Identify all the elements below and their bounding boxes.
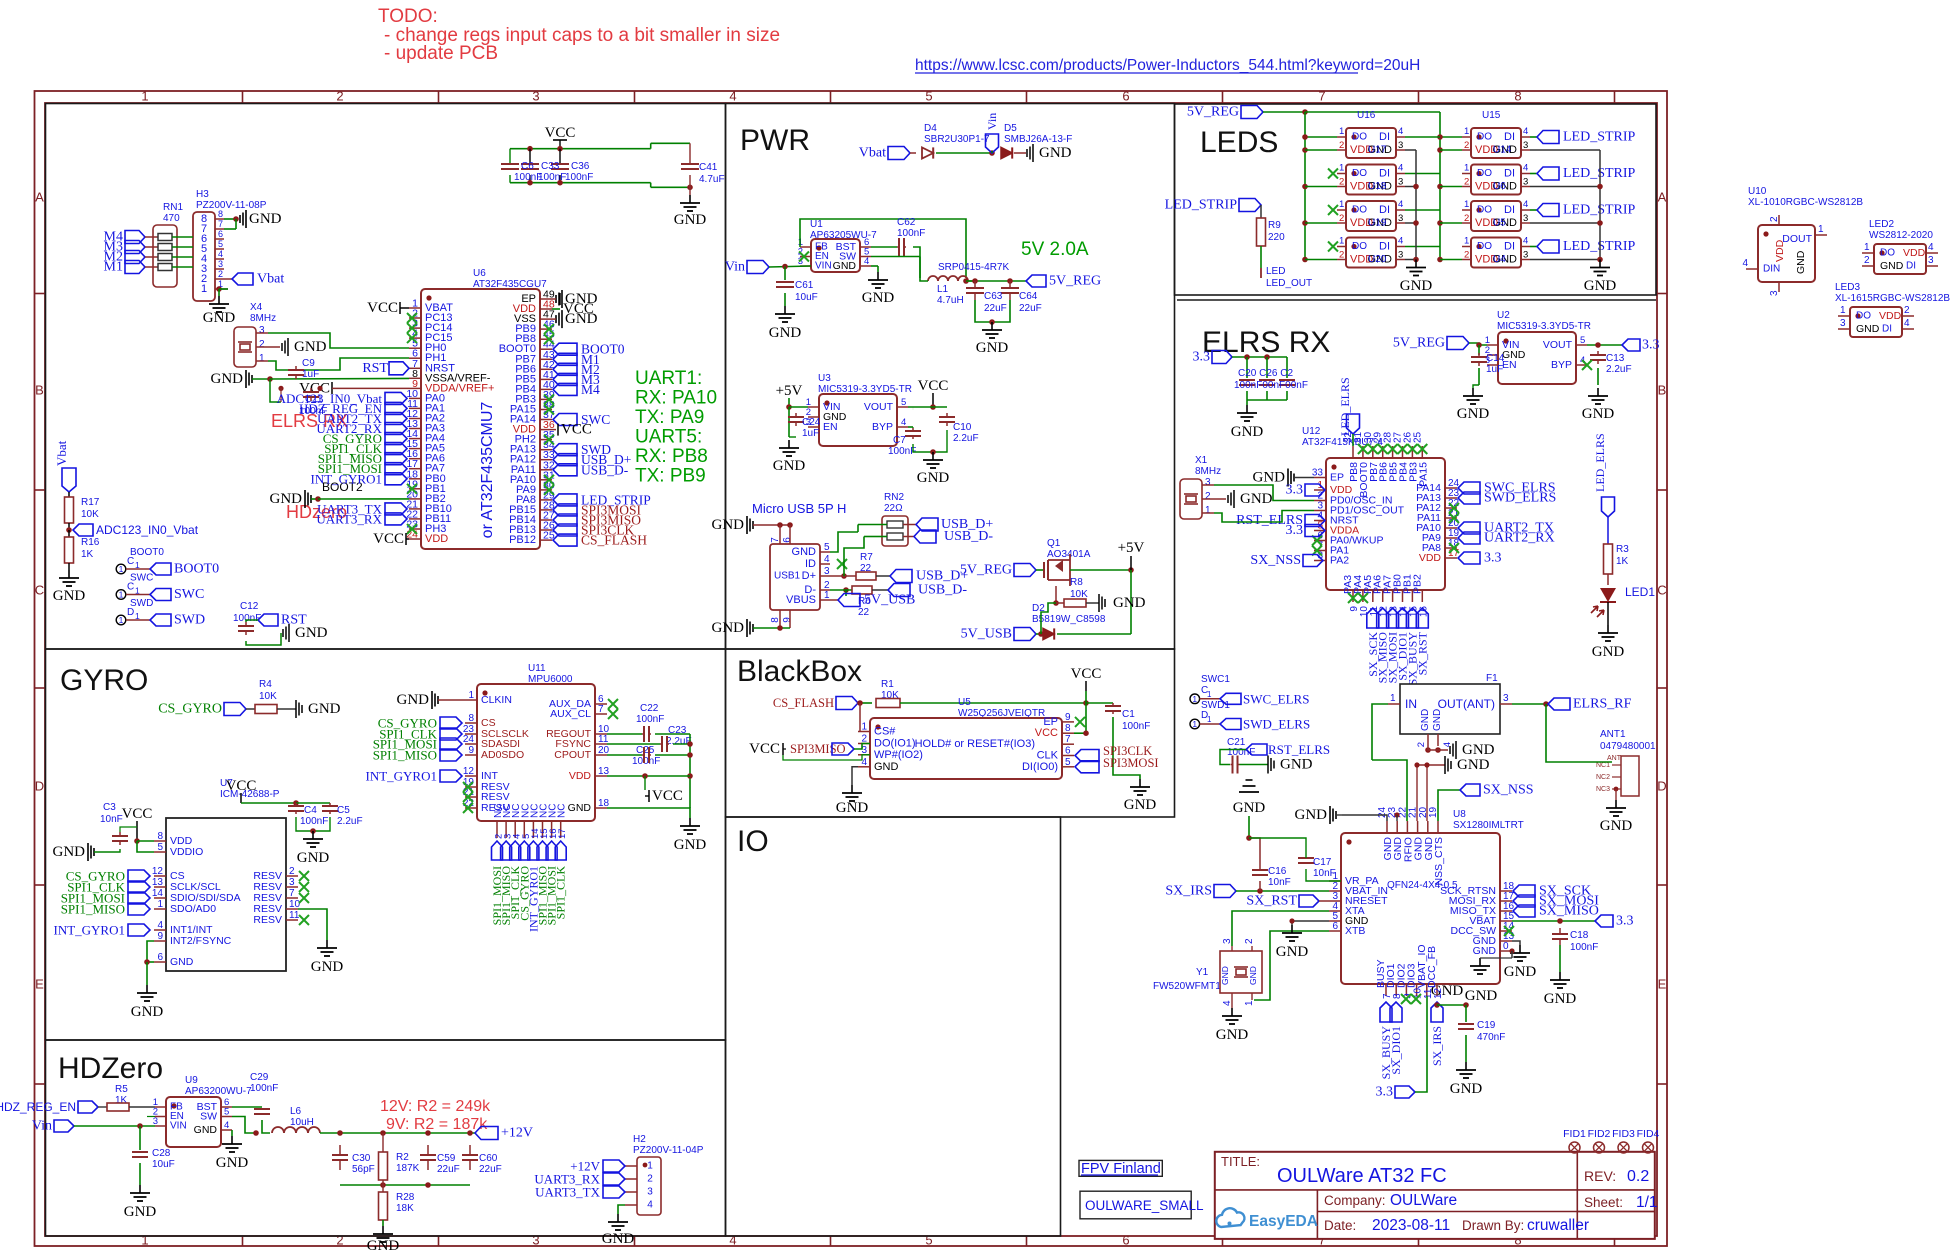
svg-text:+12V: +12V [501,1126,533,1141]
svg-text:GND: GND [1233,800,1266,816]
svg-text:3.3: 3.3 [1286,483,1304,498]
svg-text:FW520WFMT1: FW520WFMT1 [1153,981,1221,992]
svg-text:DI: DI [1379,131,1390,143]
svg-text:8: 8 [1514,89,1521,104]
svg-text:3: 3 [218,259,223,269]
svg-text:D4: D4 [924,123,937,134]
svg-text:1: 1 [1192,694,1197,704]
svg-text:C29: C29 [250,1072,269,1083]
svg-text:SWC1: SWC1 [1201,674,1230,685]
svg-text:R1: R1 [881,679,894,690]
svg-text:GND: GND [833,260,857,272]
svg-text:C59: C59 [437,1153,456,1164]
svg-text:H3: H3 [196,189,209,200]
svg-text:Date:: Date: [1324,1218,1356,1233]
svg-text:CS_FLASH: CS_FLASH [581,533,647,548]
svg-text:1uF: 1uF [302,369,319,380]
svg-text:4: 4 [729,1233,736,1248]
svg-text:VCC: VCC [226,778,257,794]
svg-text:GND: GND [249,211,282,227]
svg-text:U19: U19 [1368,218,1387,229]
svg-text:FID2: FID2 [1588,1128,1611,1140]
svg-text:INT_GYRO1: INT_GYRO1 [54,923,126,938]
svg-text:GND: GND [1280,757,1313,773]
svg-text:GND: GND [773,458,806,474]
svg-text:1: 1 [1339,126,1344,137]
svg-text:RST_ELRS: RST_ELRS [1268,742,1330,757]
svg-text:5: 5 [901,397,906,408]
svg-text:C24: C24 [802,417,821,428]
svg-text:2: 2 [336,89,343,104]
svg-text:3: 3 [1840,318,1846,329]
svg-text:SW: SW [200,1111,217,1123]
svg-text:10K: 10K [259,691,277,702]
svg-text:3: 3 [1398,177,1403,188]
svg-text:U9: U9 [185,1075,198,1086]
svg-text:22uF: 22uF [437,1164,460,1175]
svg-text:4: 4 [1904,318,1910,329]
svg-text:GND: GND [917,470,950,486]
svg-text:C: C [127,556,134,567]
svg-text:EN: EN [823,421,838,433]
svg-text:4: 4 [1928,242,1934,253]
svg-text:PA2: PA2 [1330,555,1349,567]
svg-text:C23: C23 [668,725,687,736]
svg-text:3.3: 3.3 [1193,350,1211,365]
svg-text:4: 4 [218,249,223,259]
svg-text:470nF: 470nF [1477,1032,1505,1043]
svg-text:56pF: 56pF [352,1164,375,1175]
svg-text:C3: C3 [103,802,116,813]
svg-text:GND: GND [1880,260,1904,272]
svg-text:GND: GND [1113,595,1146,611]
svg-text:1: 1 [1205,505,1211,516]
svg-text:SX_NSS: SX_NSS [1250,553,1301,568]
svg-text:VCC: VCC [918,378,949,394]
svg-text:LED_OUT: LED_OUT [1266,278,1312,289]
svg-text:DI: DI [1906,261,1916,272]
svg-text:C63: C63 [984,291,1003,302]
svg-text:3.3: 3.3 [1616,914,1634,929]
svg-text:2: 2 [647,1174,653,1185]
svg-text:12: 12 [152,866,164,877]
svg-text:C36: C36 [571,161,590,172]
svg-text:14: 14 [152,888,164,899]
svg-text:M4: M4 [581,382,600,397]
svg-text:D: D [1657,779,1666,794]
svg-text:C: C [35,583,44,598]
svg-text:GND: GND [194,1124,218,1136]
svg-text:M1: M1 [104,260,123,275]
svg-text:VOUT: VOUT [864,401,894,413]
svg-text:VIN: VIN [815,261,832,272]
svg-text:3: 3 [1503,693,1509,704]
svg-text:100nF: 100nF [233,613,261,624]
svg-text:SX_RST: SX_RST [1415,631,1429,675]
svg-text:GND: GND [1795,250,1807,274]
svg-text:FID3: FID3 [1612,1128,1635,1140]
svg-text:6: 6 [1122,89,1129,104]
svg-text:12: 12 [463,766,475,777]
svg-text:22: 22 [860,563,872,574]
svg-text:R8: R8 [1070,577,1083,588]
svg-text:AUX_CL: AUX_CL [550,708,591,720]
svg-text:4: 4 [224,1120,229,1131]
svg-text:22uF: 22uF [479,1164,502,1175]
svg-text:4: 4 [647,1200,653,1211]
svg-text:VCC: VCC [1071,666,1102,682]
svg-text:GND: GND [602,1231,635,1247]
svg-text:GND: GND [308,701,341,717]
svg-text:5V_REG: 5V_REG [1049,274,1101,289]
svg-text:0: 0 [1503,941,1509,952]
svg-text:DO: DO [1477,205,1492,216]
svg-text:DI: DI [1379,168,1390,180]
svg-text:RX: PA10: RX: PA10 [635,388,717,409]
svg-text:BYP: BYP [1551,359,1572,371]
svg-text:UART3_RX: UART3_RX [316,511,382,526]
svg-text:DI: DI [1504,131,1515,143]
svg-text:2: 2 [336,1233,343,1248]
svg-text:C41: C41 [699,162,718,173]
svg-text:U15: U15 [1482,110,1501,121]
svg-text:GND: GND [1457,757,1490,773]
svg-text:SMBJ26A-13-F: SMBJ26A-13-F [1004,134,1072,145]
svg-text:LED_ELRS: LED_ELRS [1593,433,1607,492]
svg-text:GND: GND [203,310,236,326]
svg-text:X4: X4 [250,302,263,313]
svg-text:1: 1 [824,590,830,601]
svg-text:C30: C30 [352,1153,371,1164]
svg-text:SX1280IMLTRT: SX1280IMLTRT [1453,820,1524,831]
svg-text:10nF: 10nF [1313,868,1336,879]
svg-text:GND: GND [297,850,330,866]
svg-text:6: 6 [1122,1233,1129,1248]
svg-text:U20: U20 [1368,254,1387,265]
svg-text:4: 4 [1398,199,1403,210]
svg-text:3: 3 [824,566,830,577]
svg-text:Vin: Vin [985,113,999,130]
svg-text:GND: GND [769,325,802,341]
svg-text:4: 4 [1442,742,1453,747]
svg-text:E: E [1658,977,1667,992]
svg-text:CPOUT: CPOUT [554,749,591,761]
svg-text:GND: GND [1450,1081,1483,1097]
svg-text:10uF: 10uF [152,1159,175,1170]
svg-text:U4: U4 [1493,254,1506,265]
svg-text:3: 3 [259,325,265,336]
svg-text:GND: GND [311,959,344,975]
svg-text:NC2: NC2 [1596,774,1610,781]
svg-text:4: 4 [824,554,830,565]
svg-text:DO: DO [1352,241,1367,252]
svg-text:B: B [1658,383,1667,398]
svg-text:D+: D+ [802,570,816,582]
svg-text:3: 3 [1523,177,1528,188]
svg-text:VDD: VDD [1879,310,1902,322]
svg-text:LED3: LED3 [1835,282,1860,293]
svg-text:5V_REG: 5V_REG [1187,105,1239,120]
svg-text:C13: C13 [1606,353,1625,364]
svg-text:D: D [35,779,44,794]
svg-text:VCC: VCC [367,300,398,316]
svg-text:R16: R16 [81,537,100,548]
svg-text:VCC: VCC [1035,727,1058,739]
svg-text:GND: GND [170,956,194,968]
svg-text:USB_D-: USB_D- [944,529,993,544]
svg-text:GND: GND [294,339,327,355]
svg-text:5: 5 [1065,757,1071,768]
svg-text:4: 4 [157,920,163,931]
svg-text:GND: GND [976,340,1009,356]
svg-text:GND: GND [1856,323,1880,335]
svg-text:BOOT0: BOOT0 [130,547,164,558]
svg-text:U8: U8 [1453,809,1466,820]
svg-text:3: 3 [1398,213,1403,224]
svg-text:GND: GND [131,1004,164,1020]
svg-text:GND: GND [1504,964,1537,980]
svg-text:5: 5 [218,239,223,249]
svg-text:GND: GND [53,844,86,860]
svg-text:CS_GYRO: CS_GYRO [158,702,222,717]
svg-text:100nF: 100nF [1122,721,1150,732]
svg-text:3: 3 [1398,250,1403,261]
svg-text:Vin: Vin [32,1119,52,1134]
svg-text:PZ200V-11-04P: PZ200V-11-04P [633,1145,704,1156]
svg-text:PWR: PWR [740,124,810,157]
svg-text:U14: U14 [1493,145,1512,156]
svg-text:5: 5 [157,842,163,853]
svg-text:DI: DI [1504,241,1515,253]
svg-text:3: 3 [1523,250,1528,261]
svg-text:VIN: VIN [170,1121,187,1132]
svg-text:DI: DI [1504,168,1515,180]
svg-text:DO: DO [1352,168,1367,179]
svg-text:A: A [1658,190,1667,205]
svg-text:GND: GND [1462,742,1495,758]
svg-text:GND: GND [568,802,592,814]
svg-text:NC: NC [557,804,568,818]
svg-text:DI(IO0): DI(IO0) [1022,761,1058,773]
svg-text:A: A [35,190,44,205]
svg-text:GND: GND [565,311,598,327]
svg-text:X1: X1 [1195,455,1208,466]
svg-text:3: 3 [1398,140,1403,151]
svg-text:GND: GND [1220,966,1230,985]
svg-text:C: C [127,582,134,593]
svg-text:VOUT: VOUT [1543,339,1573,351]
svg-text:GND: GND [862,290,895,306]
svg-text:CLKIN: CLKIN [481,694,512,706]
svg-text:SPI1_MISO: SPI1_MISO [61,902,125,917]
svg-text:RN2: RN2 [884,492,904,503]
svg-text:5V_USB: 5V_USB [961,627,1012,642]
svg-text:GND: GND [367,1238,400,1253]
svg-text:8MHz: 8MHz [250,313,276,324]
svg-text:C19: C19 [1477,1020,1496,1031]
svg-text:U5: U5 [1493,218,1506,229]
svg-text:HDZero: HDZero [58,1052,163,1085]
svg-text:DO: DO [1880,248,1895,259]
svg-text:RX: PB8: RX: PB8 [635,446,708,467]
svg-text:GND: GND [712,517,745,533]
svg-text:7: 7 [289,888,295,899]
svg-text:LED_STRIP: LED_STRIP [1165,198,1238,213]
svg-text:Company:: Company: [1324,1193,1386,1208]
svg-text:+5V: +5V [776,383,803,399]
svg-text:L1: L1 [937,284,949,295]
svg-text:GND: GND [674,837,707,853]
svg-text:5V 2.0A: 5V 2.0A [1021,239,1089,260]
svg-text:TITLE:: TITLE: [1221,1154,1260,1169]
svg-text:RST: RST [362,361,388,376]
svg-text:TX: PA9: TX: PA9 [635,407,704,428]
svg-text:0479480001: 0479480001 [1600,741,1656,752]
svg-text:5: 5 [824,542,830,553]
svg-text:8: 8 [468,713,474,724]
svg-text:6: 6 [218,229,223,239]
svg-text:VCC: VCC [749,741,780,757]
svg-text:GND: GND [1240,491,1273,507]
svg-text:DO(IO1): DO(IO1) [874,738,916,750]
svg-text:VDD: VDD [1903,247,1926,259]
svg-text:REV:: REV: [1584,1168,1616,1184]
svg-text:R5: R5 [115,1084,128,1095]
svg-text:1K: 1K [81,549,94,560]
svg-text:GND: GND [1582,406,1615,422]
svg-text:GND: GND [1253,470,1286,486]
svg-text:U12: U12 [1302,426,1321,437]
svg-text:VDDIO: VDDIO [170,846,203,858]
svg-text:GND: GND [53,588,86,604]
svg-text:4: 4 [1523,199,1528,210]
svg-text:4.7uH: 4.7uH [937,295,964,306]
svg-text:12V: R2 = 249k: 12V: R2 = 249k [380,1098,491,1115]
svg-text:9: 9 [1065,712,1071,723]
svg-text:2: 2 [1244,938,1255,944]
svg-text:ANT1: ANT1 [1600,729,1626,740]
svg-text:6: 6 [157,952,163,963]
svg-text:Micro USB 5P H: Micro USB 5P H [752,501,846,516]
svg-text:Q1: Q1 [1047,538,1061,549]
svg-text:C1: C1 [1122,709,1135,720]
svg-text:HOLD# or RESET#(IO3): HOLD# or RESET#(IO3) [915,738,1035,750]
svg-text:100nF: 100nF [538,172,566,183]
svg-text:R2: R2 [396,1152,409,1163]
svg-text:2: 2 [289,866,295,877]
svg-text:PB2: PB2 [1411,574,1423,594]
svg-text:9V: R2 = 187k: 9V: R2 = 187k [386,1116,488,1133]
svg-text:100nF: 100nF [1227,747,1255,758]
svg-text:Drawn By:: Drawn By: [1462,1218,1524,1233]
svg-text:Vbat: Vbat [859,146,886,161]
svg-text:4: 4 [1523,163,1528,174]
svg-text:4: 4 [901,417,906,428]
svg-text:VCC: VCC [561,422,592,438]
svg-text:470: 470 [163,213,180,224]
svg-text:U1: U1 [810,219,823,230]
svg-text:1: 1 [259,353,265,364]
svg-text:VDD: VDD [425,533,448,545]
svg-text:4: 4 [864,256,869,267]
svg-text:2.2uF: 2.2uF [953,433,979,444]
svg-text:1: 1 [861,722,867,733]
svg-text:2: 2 [1904,305,1910,316]
svg-text:LED_STRIP: LED_STRIP [1563,130,1636,145]
svg-text:1: 1 [141,1233,148,1248]
svg-text:6: 6 [1332,921,1338,932]
svg-text:2: 2 [218,269,223,279]
svg-text:4: 4 [1398,126,1403,137]
svg-text:DO: DO [1352,132,1367,143]
svg-text:CS_FLASH: CS_FLASH [773,696,834,710]
svg-text:AO3401A: AO3401A [1047,549,1091,560]
svg-text:GND: GND [674,212,707,228]
svg-text:7: 7 [1065,734,1071,745]
svg-text:10uF: 10uF [795,292,818,303]
svg-text:5V_REG: 5V_REG [960,563,1012,578]
svg-text:3.3: 3.3 [1286,523,1304,538]
svg-text:C5: C5 [337,805,350,816]
svg-text:Sheet:: Sheet: [1584,1195,1623,1210]
svg-text:220: 220 [1268,232,1285,243]
svg-text:U6: U6 [473,268,486,279]
svg-text:1: 1 [468,690,474,701]
svg-text:1: 1 [1339,199,1344,210]
svg-text:Vbat: Vbat [54,440,69,466]
svg-text:TX: PB9: TX: PB9 [635,466,706,487]
svg-text:1: 1 [1207,715,1212,724]
svg-text:SBR2U30P1-7: SBR2U30P1-7 [924,134,990,145]
svg-text:ADC123_IN0_Vbat: ADC123_IN0_Vbat [96,523,199,537]
svg-text:1uF: 1uF [802,428,819,439]
svg-text:187K: 187K [396,1163,420,1174]
svg-text:GND: GND [874,761,899,773]
svg-text:1: 1 [647,1161,653,1172]
svg-text:GND: GND [124,1204,157,1220]
svg-text:1: 1 [157,899,163,910]
svg-text:C28: C28 [152,1148,171,1159]
svg-text:C17: C17 [1313,857,1332,868]
svg-text:3: 3 [1523,140,1528,151]
svg-text:OULWare AT32 FC: OULWare AT32 FC [1277,1165,1447,1187]
svg-text:5: 5 [925,1233,932,1248]
svg-text:XL-1010RGBC-WS2812B: XL-1010RGBC-WS2812B [1748,197,1863,208]
svg-text:3: 3 [1205,477,1211,488]
svg-text:GYRO: GYRO [60,664,148,697]
svg-text:C60: C60 [479,1153,498,1164]
svg-text:FID4: FID4 [1637,1128,1660,1140]
svg-text:AP63200WU-7: AP63200WU-7 [185,1086,252,1097]
svg-text:RESV: RESV [253,914,282,926]
svg-text:2: 2 [1464,250,1469,261]
svg-text:GND: GND [1124,797,1157,813]
svg-text:D5: D5 [1004,123,1017,134]
svg-text:100nF: 100nF [1570,942,1598,953]
svg-text:GND: GND [1231,424,1264,440]
svg-text:SWD_ELRS: SWD_ELRS [1484,491,1556,506]
svg-text:1: 1 [201,283,207,295]
svg-text:ID: ID [805,558,816,570]
svg-text:SX_DIO1: SX_DIO1 [1389,1026,1403,1075]
svg-text:1/1: 1/1 [1636,1194,1658,1211]
svg-text:C20 C26 C2: C20 C26 C2 [1238,368,1293,379]
svg-text:C64: C64 [1019,291,1038,302]
svg-text:2: 2 [1205,491,1211,502]
svg-text:C9: C9 [302,358,315,369]
svg-text:OULWare: OULWare [1390,1192,1457,1209]
svg-text:4: 4 [1398,236,1403,247]
